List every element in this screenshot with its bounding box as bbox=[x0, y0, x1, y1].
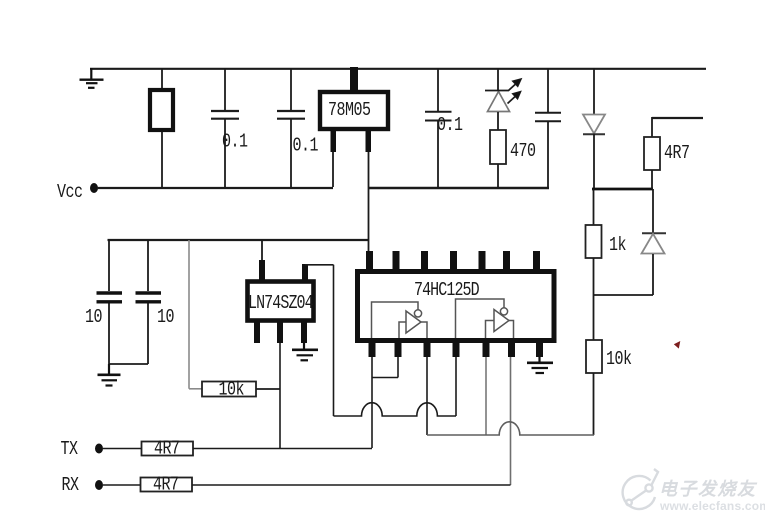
svg-text:0.1: 0.1 bbox=[293, 136, 319, 157]
svg-text:10k: 10k bbox=[219, 380, 245, 401]
svg-text:www.elecfans.com: www.elecfans.com bbox=[659, 499, 765, 513]
wire enable net with hops bbox=[334, 403, 457, 416]
inverter U3 LN74SZ04 bbox=[248, 282, 314, 321]
wire U3 pin2 down to TX bbox=[279, 343, 281, 448]
wire caps join bbox=[109, 363, 148, 365]
pin U3 top-left bbox=[259, 260, 265, 280]
wire TX right bbox=[193, 448, 372, 450]
capacitor C4 bbox=[535, 68, 561, 188]
svg-text:4R7: 4R7 bbox=[153, 475, 179, 496]
watermark url bbox=[659, 499, 765, 513]
wire RX left bbox=[103, 484, 141, 486]
wire resistor R1 top bbox=[161, 68, 163, 89]
pin U1 top 10 bbox=[479, 251, 486, 271]
watermark title bbox=[659, 479, 758, 499]
svg-text:4R7: 4R7 bbox=[154, 439, 180, 460]
pin 78M05 bottom right bbox=[366, 129, 372, 152]
wire data net with hop bbox=[427, 422, 594, 435]
ground U3 bbox=[292, 343, 318, 360]
capacitor C5 10 bbox=[97, 240, 123, 364]
resistor 1k bbox=[586, 189, 602, 295]
diode D2 bbox=[642, 189, 667, 295]
svg-text:4R7: 4R7 bbox=[664, 143, 690, 164]
value label 4R7 right bbox=[664, 143, 690, 164]
wire 78M05 left pin to Vcc rail bbox=[332, 152, 334, 187]
wire gray branch to 10k bbox=[189, 240, 202, 389]
wire node segment y295 bbox=[594, 294, 654, 296]
value label 10 C6 bbox=[157, 307, 174, 328]
watermark logo bbox=[623, 469, 658, 509]
pin 78M05 bottom left bbox=[331, 129, 337, 152]
wire top bus bbox=[90, 68, 706, 70]
wire 10k to node bbox=[256, 388, 280, 390]
value label 0.1 C2 bbox=[293, 136, 319, 157]
svg-text:10: 10 bbox=[157, 307, 174, 328]
capacitor C2 0.1 bbox=[277, 68, 305, 187]
value label 10k right bbox=[606, 349, 632, 370]
resistor 4R7 RX bbox=[141, 475, 193, 496]
wire 5V rail bbox=[368, 187, 549, 189]
buffer U1 74HC125D bbox=[358, 272, 555, 341]
capacitor C1 0.1 bbox=[211, 68, 239, 187]
regulator U2 78M05 bbox=[320, 92, 388, 129]
resistor R1 bbox=[150, 90, 173, 130]
gate 2 inside U1 bbox=[456, 299, 514, 338]
pin 78M05 input top bbox=[350, 67, 358, 92]
pin U1 top 11 bbox=[450, 251, 457, 271]
value label 0.1 C1 bbox=[222, 132, 248, 153]
LED D3 bbox=[488, 68, 510, 130]
wire 4R7 branch top bbox=[652, 117, 703, 137]
wire 78M05 output down bbox=[368, 152, 370, 253]
pin U1 top 13 bbox=[393, 251, 400, 271]
pin U1 bottom 3 bbox=[424, 341, 431, 357]
pin U1 bottom 6 bbox=[508, 341, 515, 357]
capacitor C6 10 bbox=[136, 240, 162, 364]
wire U3 out route bbox=[305, 265, 334, 416]
svg-text:Vcc: Vcc bbox=[57, 182, 83, 203]
svg-text:470: 470 bbox=[510, 141, 536, 162]
wire pin5 down gray bbox=[485, 357, 487, 435]
value label 10 C5 bbox=[85, 307, 102, 328]
svg-text:0.1: 0.1 bbox=[222, 132, 248, 153]
diode D1 bbox=[583, 68, 605, 188]
pin U1 bottom 1 bbox=[369, 341, 376, 357]
wire pin6 down gray to RX bbox=[510, 357, 512, 485]
node Vcc bbox=[57, 182, 98, 203]
wire node segment y189 bbox=[592, 188, 653, 191]
svg-text:78M05: 78M05 bbox=[328, 100, 371, 121]
pin U3 bottom 2 bbox=[277, 322, 283, 343]
pin U1 top 8 bbox=[533, 251, 540, 271]
ground top-left bbox=[80, 68, 104, 88]
ground U1 pin7 bbox=[527, 357, 553, 373]
resistor 4R7 right bbox=[644, 137, 660, 170]
LED arrows bbox=[485, 79, 522, 104]
cursor red arrow bbox=[674, 341, 681, 349]
resistor 470 bbox=[490, 130, 506, 164]
wire resistor R1 bottom bbox=[161, 132, 163, 187]
wire 4R7 bottom bbox=[651, 170, 653, 189]
pin U1 bottom 7 bbox=[536, 341, 543, 357]
wire TX left bbox=[103, 448, 142, 450]
resistor 4R7 TX bbox=[142, 439, 194, 460]
node RX bbox=[62, 475, 104, 496]
gate 1 inside U1 bbox=[372, 302, 428, 338]
value label 0.1 C3 bbox=[437, 115, 463, 136]
node TX bbox=[61, 439, 104, 460]
pin U3 bottom 1 bbox=[254, 322, 260, 343]
wire RX right bbox=[192, 484, 511, 486]
svg-text:10: 10 bbox=[85, 307, 102, 328]
resistor 10k right bbox=[586, 295, 602, 435]
pin U3 top-right bbox=[302, 264, 308, 280]
svg-text:1k: 1k bbox=[609, 235, 626, 256]
svg-text:TX: TX bbox=[61, 439, 79, 460]
pin U3 bottom 3 bbox=[301, 322, 307, 343]
capacitor C3 0.1 bbox=[425, 68, 452, 188]
wire pin3 down bbox=[426, 357, 428, 435]
svg-text:RX: RX bbox=[62, 475, 80, 496]
svg-text:0.1: 0.1 bbox=[437, 115, 463, 136]
wire 5V bus y240 bbox=[108, 239, 370, 241]
wire U3 top-left pin to bus bbox=[261, 240, 263, 260]
svg-text:10k: 10k bbox=[606, 349, 632, 370]
svg-text:LN74SZ04: LN74SZ04 bbox=[248, 293, 313, 314]
pin U1 bottom 5 bbox=[483, 341, 490, 357]
pin U1 top 9 bbox=[503, 251, 510, 271]
pin U1 top 12 bbox=[421, 251, 428, 271]
wire pin4 enable bbox=[455, 357, 457, 416]
wire 470 bottom bbox=[497, 164, 499, 188]
pin U1 bottom 4 bbox=[453, 341, 460, 357]
value label 1k bbox=[609, 235, 626, 256]
pin U1 top 14 bbox=[366, 251, 373, 271]
value label 470 bbox=[510, 141, 536, 162]
svg-text:电子发烧友: 电子发烧友 bbox=[659, 479, 758, 499]
wire pin1 down to TX bbox=[371, 357, 373, 448]
wire Vcc rail bbox=[97, 187, 333, 189]
wire pin2 jog to pin1 bbox=[372, 357, 398, 378]
ground caps bbox=[98, 364, 121, 386]
resistor 10k horizontal bbox=[202, 380, 256, 401]
pin U1 bottom 2 bbox=[395, 341, 402, 357]
